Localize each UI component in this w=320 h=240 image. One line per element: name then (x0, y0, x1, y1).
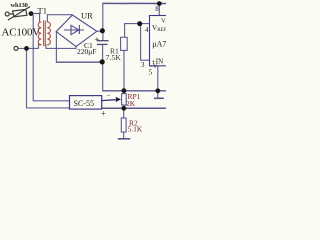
svg-text:UR: UR (81, 11, 93, 21)
svg-text:wh130: wh130 (11, 2, 28, 9)
svg-text:+: + (101, 109, 106, 119)
svg-text:T1: T1 (38, 6, 47, 16)
svg-text:μA72: μA72 (152, 40, 166, 49)
svg-text:2K: 2K (126, 99, 136, 108)
svg-text:-V: -V (150, 62, 157, 70)
svg-text:SC-55: SC-55 (74, 99, 94, 108)
svg-text:−: − (107, 92, 111, 100)
svg-text:4: 4 (145, 26, 149, 34)
svg-text:+: + (165, 21, 166, 26)
svg-text:3: 3 (141, 61, 145, 69)
svg-text:7.5K: 7.5K (106, 53, 122, 62)
svg-text:220μF: 220μF (77, 47, 96, 56)
svg-text:AC100V: AC100V (2, 26, 41, 38)
svg-text:REF: REF (157, 28, 166, 33)
svg-text:5.1K: 5.1K (128, 125, 143, 134)
svg-text:8: 8 (155, 5, 159, 13)
